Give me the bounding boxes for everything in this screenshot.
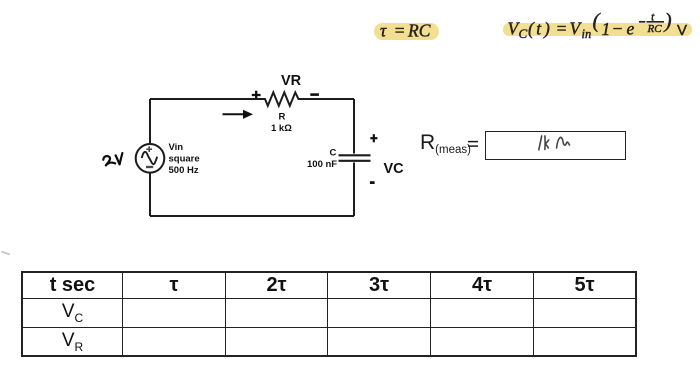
svg-text:VC: VC [384, 161, 405, 177]
svg-text:1 kΩ: 1 kΩ [271, 123, 292, 134]
svg-text:C: C [330, 148, 337, 159]
svg-text:100 nF: 100 nF [307, 159, 337, 170]
svg-text:square: square [169, 154, 200, 165]
svg-text:VR: VR [281, 73, 302, 89]
svg-text:Vin: Vin [169, 142, 184, 153]
svg-text:R: R [279, 112, 286, 123]
svg-text:500 Hz: 500 Hz [169, 165, 199, 176]
